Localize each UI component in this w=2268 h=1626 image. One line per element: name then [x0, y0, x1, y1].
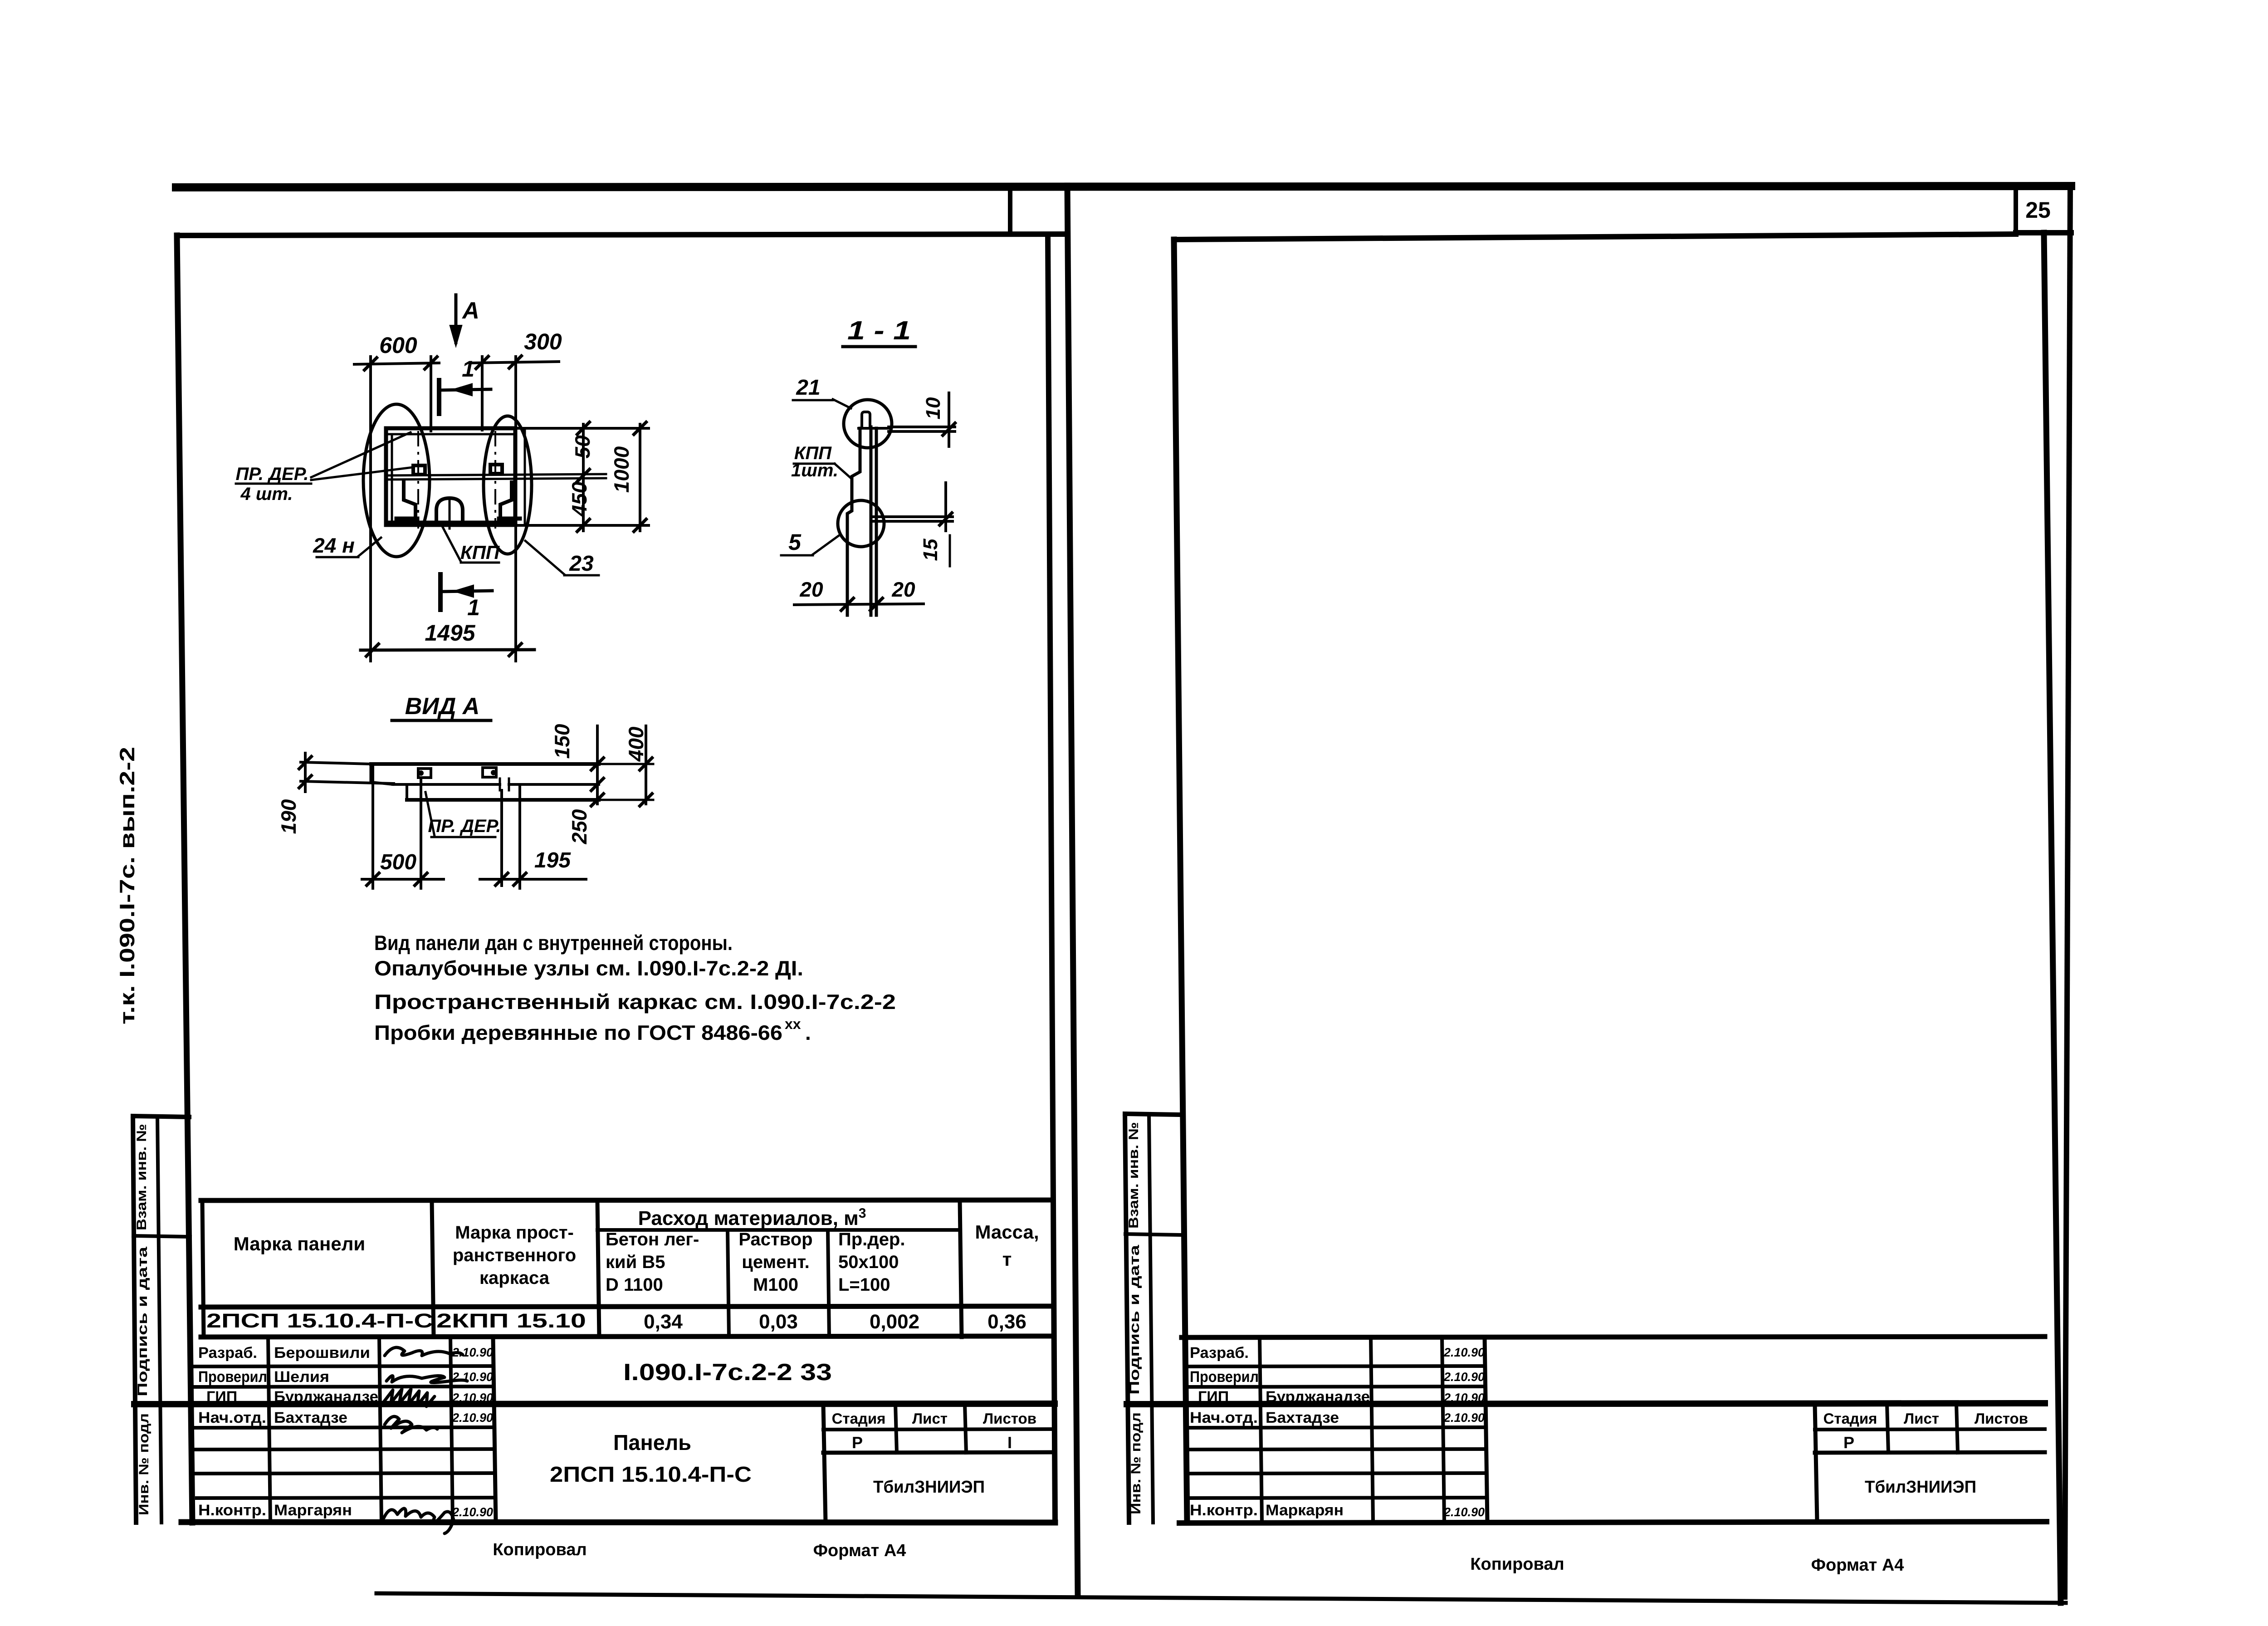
- svg-text:2.10.90: 2.10.90: [1443, 1346, 1485, 1359]
- dimensions 150 400 250: [515, 724, 653, 844]
- svg-text:400: 400: [624, 726, 648, 762]
- svg-text:Проверил: Проверил: [198, 1368, 267, 1386]
- pages divider vertical line: [1067, 186, 1078, 1596]
- left title block dates: [452, 1346, 493, 1519]
- KPP channel profile left: [396, 482, 417, 519]
- plan extension lines: [371, 357, 516, 661]
- svg-text:Лист: Лист: [1904, 1410, 1939, 1427]
- svg-text:2ПСП 15.10.4-П-С: 2ПСП 15.10.4-П-С: [206, 1310, 433, 1332]
- dimension 300: [472, 329, 562, 370]
- svg-text:Марка панели: Марка панели: [234, 1233, 366, 1254]
- svg-text:450: 450: [567, 481, 591, 517]
- svg-text:Марка прост-: Марка прост-: [455, 1223, 574, 1243]
- svg-text:D 1100: D 1100: [606, 1275, 663, 1295]
- view A extension lines down: [373, 764, 520, 888]
- dimension 20 20: [794, 578, 924, 612]
- svg-text:Стадия: Стадия: [1823, 1410, 1877, 1427]
- svg-text:15: 15: [919, 539, 942, 561]
- svg-text:Н.контр.: Н.контр.: [198, 1502, 266, 1519]
- document number: [623, 1359, 832, 1386]
- view A panel profile: [371, 764, 599, 800]
- svg-text:10: 10: [922, 397, 944, 419]
- svg-text:20: 20: [891, 578, 915, 601]
- svg-text:Листов: Листов: [983, 1410, 1036, 1427]
- svg-text:25: 25: [2025, 197, 2051, 223]
- svg-text:1 - 1: 1 - 1: [847, 316, 911, 345]
- section mark 1 bottom: [440, 574, 492, 620]
- svg-text:Инв. № подл: Инв. № подл: [137, 1413, 152, 1515]
- svg-text:0,34: 0,34: [644, 1311, 683, 1333]
- svg-text:т: т: [1002, 1249, 1012, 1270]
- section title 1-1: [843, 316, 915, 347]
- svg-text:50х100: 50х100: [838, 1252, 899, 1272]
- dimension 500: [362, 850, 444, 886]
- right title block grid: [1127, 1337, 2045, 1522]
- svg-text:Нач.отд.: Нач.отд.: [198, 1409, 266, 1426]
- svg-text:Подпись и дата: Подпись и дата: [135, 1247, 150, 1396]
- svg-text:Панель: Панель: [613, 1431, 691, 1455]
- svg-text:1495: 1495: [425, 620, 475, 646]
- svg-text:Стадия: Стадия: [832, 1410, 886, 1427]
- svg-text:50: 50: [571, 435, 594, 459]
- svg-text:0,002: 0,002: [870, 1311, 919, 1333]
- svg-text:300: 300: [524, 329, 562, 354]
- section profile: [847, 412, 889, 615]
- svg-text:I.090.I-7с.2-2 33: I.090.I-7с.2-2 33: [623, 1359, 832, 1386]
- view direction arrow A: [450, 295, 479, 345]
- section mark 1 top: [439, 356, 491, 414]
- svg-text:цемент.: цемент.: [742, 1252, 810, 1272]
- right side dimensions 50 450 1000: [515, 421, 649, 533]
- svg-text:23: 23: [569, 552, 594, 576]
- svg-text:21: 21: [796, 376, 820, 400]
- svg-text:1000: 1000: [610, 446, 633, 493]
- svg-text:500: 500: [380, 850, 416, 874]
- svg-text:хх: хх: [785, 1016, 801, 1032]
- svg-text:2.10.90: 2.10.90: [452, 1505, 493, 1519]
- svg-text:Инв. № подл: Инв. № подл: [1129, 1412, 1144, 1514]
- svg-text:Бурджанадзе: Бурджанадзе: [1266, 1388, 1370, 1406]
- label KPP 1sht with leader: [791, 443, 851, 480]
- svg-text:Взам. инв. №: Взам. инв. №: [1126, 1122, 1141, 1229]
- svg-text:ПР. ДЕР.: ПР. ДЕР.: [428, 816, 501, 836]
- dimension 600: [354, 333, 439, 371]
- detail circle bottom: [838, 500, 884, 547]
- svg-text:Расход материалов, м3: Расход материалов, м3: [638, 1206, 866, 1229]
- svg-text:Шелия: Шелия: [274, 1368, 329, 1386]
- svg-text:Разраб.: Разраб.: [198, 1344, 257, 1362]
- detail circle top: [844, 400, 892, 448]
- dimension 10: [889, 393, 956, 446]
- svg-text:Разраб.: Разраб.: [1190, 1344, 1249, 1362]
- svg-text:т.к. I.090.I-7с. вып.2-2: т.к. I.090.I-7с. вып.2-2: [115, 747, 139, 1024]
- center lines of plugs: [418, 431, 495, 529]
- svg-text:0,36: 0,36: [987, 1311, 1026, 1333]
- svg-text:5: 5: [788, 529, 802, 555]
- left margin document code vertical text: [115, 747, 139, 1024]
- top band bottom line right segment (right page frame top): [1178, 234, 2016, 240]
- stadia list listov header left: [832, 1410, 1036, 1452]
- left page frame right edge: [1048, 235, 1055, 1523]
- svg-text:Масса,: Масса,: [975, 1221, 1039, 1243]
- top band small box divider left page: [1008, 186, 1012, 235]
- view A title: [392, 693, 491, 720]
- dimension 1495: [361, 620, 534, 657]
- svg-text:2.10.90: 2.10.90: [452, 1370, 493, 1384]
- footer labels left page: [493, 1540, 906, 1560]
- svg-text:ТбилЗНИИЭП: ТбилЗНИИЭП: [1865, 1478, 1976, 1497]
- left stamp strip labels: [134, 1124, 152, 1515]
- svg-text:ГИП: ГИП: [1198, 1388, 1229, 1406]
- svg-text:1: 1: [462, 356, 474, 382]
- svg-text:.: .: [805, 1021, 811, 1044]
- svg-text:2КПП 15.10: 2КПП 15.10: [436, 1310, 586, 1332]
- svg-text:ранственного: ранственного: [453, 1245, 576, 1265]
- KPP channel profile right: [499, 482, 520, 519]
- page number box: [2016, 186, 2071, 233]
- svg-text:20: 20: [799, 578, 823, 601]
- svg-text:Лист: Лист: [912, 1410, 948, 1427]
- label KPP plan with leader: [442, 526, 500, 563]
- page number 25: [2025, 197, 2051, 223]
- svg-text:Маргарян: Маргарян: [274, 1502, 352, 1519]
- svg-text:Р: Р: [1843, 1433, 1854, 1452]
- right page frame left edge: [1174, 240, 1187, 1523]
- sheet top border line: [176, 186, 2071, 187]
- svg-text:195: 195: [534, 848, 571, 872]
- svg-text:2.10.90: 2.10.90: [452, 1411, 493, 1425]
- svg-text:Формат А4: Формат А4: [1811, 1556, 1904, 1575]
- left title block signatures: [384, 1347, 467, 1533]
- label PR.DER. 4 sht with leaders: [235, 432, 413, 504]
- footer labels right page: [1470, 1555, 1904, 1575]
- view A plug marks: [418, 768, 496, 778]
- left page frame left edge: [177, 235, 192, 1523]
- svg-text:Бурджанадзе: Бурджанадзе: [274, 1388, 378, 1406]
- svg-text:Копировал: Копировал: [1470, 1555, 1564, 1574]
- svg-text:ПР. ДЕР.: ПР. ДЕР.: [235, 464, 308, 484]
- svg-text:А: А: [461, 298, 479, 324]
- svg-text:каркаса: каркаса: [479, 1268, 550, 1288]
- svg-text:Проверил: Проверил: [1190, 1368, 1259, 1386]
- right page title block bottom edge: [1179, 1522, 2047, 1523]
- left page frame bottom edge: [181, 1522, 1055, 1523]
- left title block names: [274, 1344, 378, 1519]
- stadia list listov header right: [1823, 1410, 2028, 1452]
- table data row: [206, 1310, 1026, 1333]
- svg-text:М100: М100: [753, 1275, 798, 1295]
- label 24n with leader: [313, 534, 381, 557]
- svg-text:24 н: 24 н: [313, 534, 355, 557]
- svg-text:Опалубочные узлы см. I.090.I-7: Опалубочные узлы см. I.090.I-7с.2-2 ДI.: [374, 956, 803, 980]
- svg-text:2ПСП 15.10.4-П-С: 2ПСП 15.10.4-П-С: [550, 1463, 752, 1487]
- svg-text:КПП: КПП: [460, 542, 500, 563]
- panel outline plan view: [386, 428, 525, 525]
- svg-text:ГИП: ГИП: [206, 1388, 237, 1406]
- left title block grid: [134, 1337, 1055, 1522]
- panel mid joint line: [386, 474, 606, 480]
- svg-text:Маркарян: Маркарян: [1266, 1502, 1344, 1519]
- label 5 with leader: [781, 529, 839, 555]
- right title block names: [1266, 1388, 1370, 1519]
- svg-text:2.10.90: 2.10.90: [1443, 1411, 1485, 1425]
- right title block dates: [1443, 1346, 1485, 1519]
- svg-text:Пространственный каркас см. I.: Пространственный каркас см. I.090.I-7с.2…: [374, 990, 896, 1014]
- organization name right: [1865, 1478, 1976, 1497]
- svg-text:Раствор: Раствор: [738, 1229, 812, 1249]
- right stamp strip box: [1125, 1114, 1182, 1523]
- svg-text:0,03: 0,03: [759, 1311, 798, 1333]
- svg-text:Листов: Листов: [1975, 1410, 2028, 1427]
- svg-text:L=100: L=100: [838, 1275, 890, 1295]
- svg-text:150: 150: [550, 724, 574, 759]
- svg-text:Взам. инв. №: Взам. инв. №: [134, 1124, 149, 1230]
- svg-text:600: 600: [379, 333, 417, 358]
- svg-text:2.10.90: 2.10.90: [452, 1346, 493, 1359]
- detail balloon right: [484, 416, 532, 554]
- right page frame right outer edge: [2065, 186, 2070, 1597]
- svg-text:Пробки деревянные по ГОСТ 8486: Пробки деревянные по ГОСТ 8486-66: [374, 1021, 782, 1044]
- svg-text:2.10.90: 2.10.90: [1443, 1505, 1485, 1519]
- svg-text:2.10.90: 2.10.90: [452, 1391, 493, 1405]
- wooden plug right plan: [490, 465, 502, 474]
- svg-text:1: 1: [467, 595, 480, 620]
- svg-text:Подпись и дата: Подпись и дата: [1127, 1245, 1142, 1395]
- svg-text:ТбилЗНИИЭП: ТбилЗНИИЭП: [873, 1478, 985, 1497]
- svg-text:2.10.90: 2.10.90: [1443, 1391, 1485, 1405]
- svg-text:Бетон лег-: Бетон лег-: [606, 1229, 699, 1249]
- svg-text:Берошвили: Берошвили: [274, 1344, 370, 1362]
- right stamp strip labels: [1126, 1122, 1144, 1514]
- svg-text:Пр.дер.: Пр.дер.: [838, 1229, 905, 1249]
- svg-text:250: 250: [567, 809, 591, 844]
- svg-text:1шт.: 1шт.: [791, 460, 838, 480]
- table headers: [234, 1206, 1039, 1295]
- svg-text:Р: Р: [852, 1433, 863, 1452]
- svg-text:кий В5: кий В5: [606, 1252, 665, 1272]
- left stamp strip box: [133, 1116, 190, 1523]
- label 23 with leader: [525, 541, 599, 576]
- dimension 190: [277, 753, 394, 834]
- sheet bottom edge line: [376, 1593, 2066, 1603]
- organization name left: [873, 1478, 985, 1497]
- svg-text:Бахтадзе: Бахтадзе: [274, 1409, 347, 1426]
- svg-text:Копировал: Копировал: [493, 1540, 587, 1559]
- KPP channel dome center: [436, 498, 463, 529]
- label 21 with leader: [793, 376, 851, 408]
- materials table grid: [201, 1200, 1053, 1337]
- svg-text:4 шт.: 4 шт.: [240, 484, 293, 504]
- top band bottom line left segment (left page frame top): [177, 234, 1067, 235]
- label PR.DER. view A with leader: [425, 792, 501, 837]
- svg-text:Вид панели дан с внутренней ст: Вид панели дан с внутренней стороны.: [374, 931, 733, 955]
- dimension 15: [873, 483, 953, 566]
- svg-text:2.10.90: 2.10.90: [1443, 1370, 1485, 1384]
- dimension 195: [480, 848, 586, 886]
- left title block labels: [198, 1344, 267, 1519]
- notes text block: [374, 931, 896, 1044]
- svg-text:190: 190: [277, 799, 300, 834]
- svg-text:Н.контр.: Н.контр.: [1190, 1502, 1258, 1519]
- detail balloon left: [363, 404, 430, 557]
- svg-text:Формат А4: Формат А4: [813, 1541, 906, 1560]
- wooden plug left plan: [413, 465, 425, 475]
- svg-text:ВИД А: ВИД А: [405, 693, 480, 720]
- svg-text:Нач.отд.: Нач.отд.: [1190, 1409, 1258, 1426]
- right page frame right inner edge: [2044, 233, 2061, 1603]
- right title block labels: [1190, 1344, 1259, 1519]
- svg-text:Бахтадзе: Бахтадзе: [1266, 1409, 1339, 1426]
- svg-text:I: I: [1007, 1433, 1012, 1452]
- panel name cell: [550, 1431, 752, 1487]
